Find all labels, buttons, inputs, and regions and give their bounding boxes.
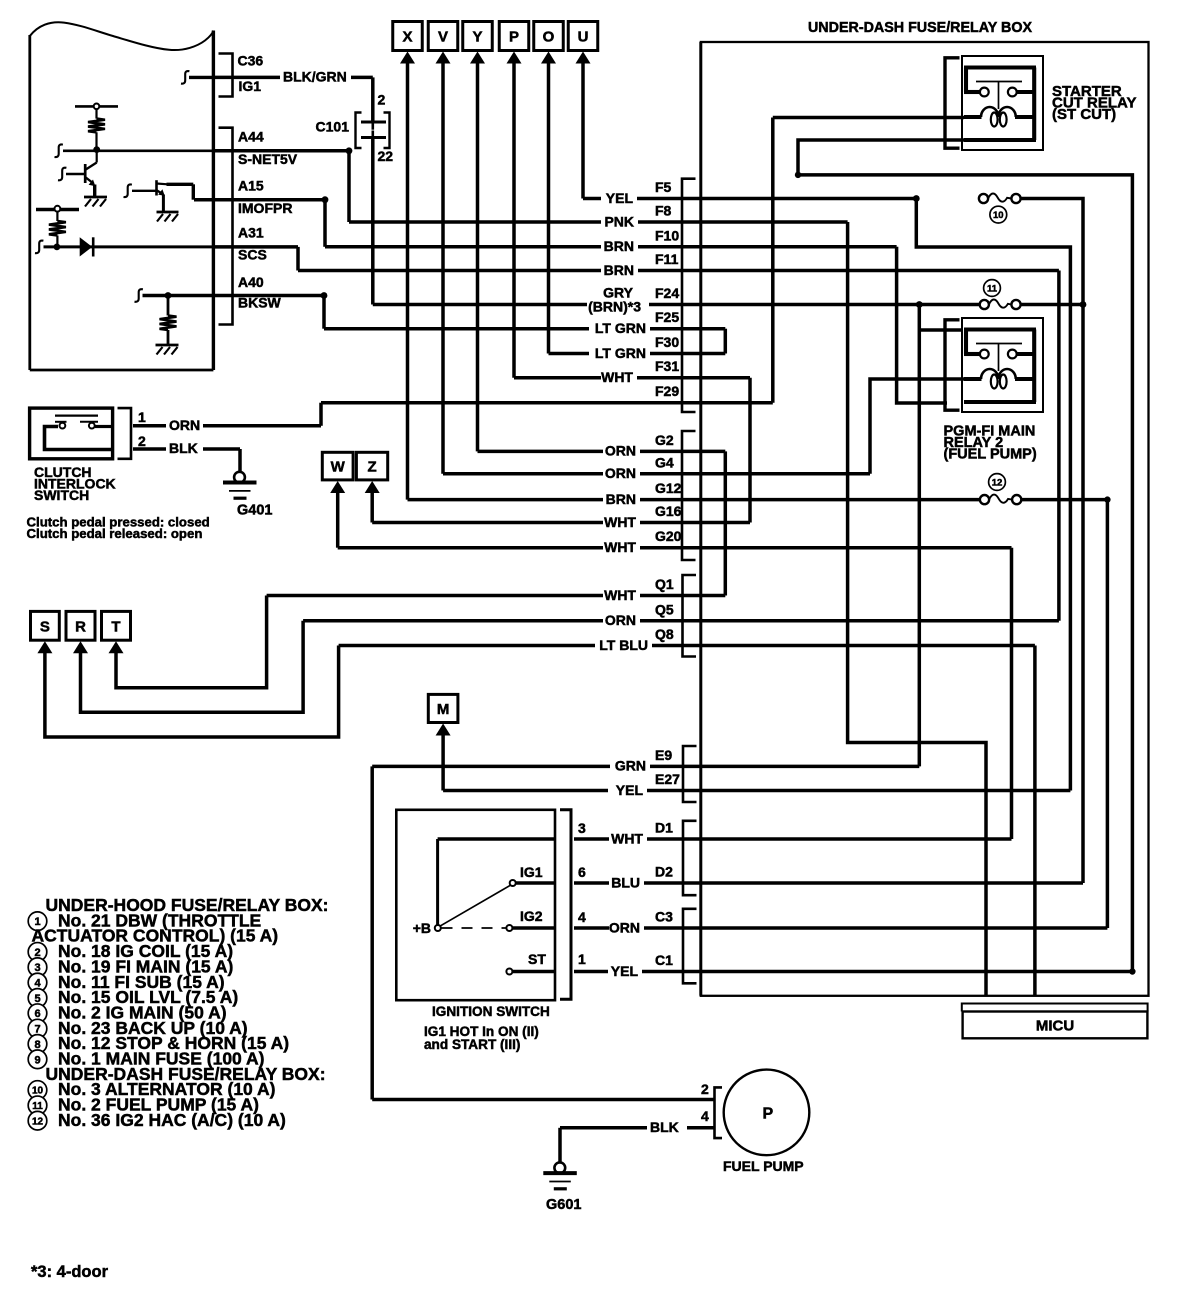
connector O: [534, 22, 564, 51]
corner node: [346, 147, 353, 154]
wire F31 to G16: [748, 378, 752, 523]
svg-text:ORN: ORN: [609, 919, 640, 935]
svg-text:P: P: [509, 29, 519, 46]
arrow to connector R: [73, 641, 88, 653]
svg-text:WHT: WHT: [604, 587, 636, 603]
wire SCS inside ECM: [44, 245, 214, 248]
wire ORN C3 (pin stub): [644, 926, 1107, 930]
svg-text:3: 3: [34, 962, 40, 974]
wire ORN: [203, 424, 321, 428]
svg-text:Q1: Q1: [655, 576, 674, 592]
wire down to G401: [238, 449, 242, 472]
wire T to Q1: [116, 596, 267, 688]
svg-text:F10: F10: [655, 227, 679, 243]
wire P to F31: [512, 61, 516, 378]
svg-text:11: 11: [987, 283, 998, 294]
svg-text:G20: G20: [655, 528, 682, 544]
wire PNK F8 (pin stub): [638, 220, 848, 224]
svg-text:GRN: GRN: [615, 758, 646, 774]
wire G20 to D1: [1010, 548, 1014, 839]
wire C101 to F24 row: [371, 138, 375, 305]
wire to Q1 collector: [96, 150, 98, 163]
IG1 stub curl: [181, 71, 189, 84]
junction F5/fuse10: [913, 195, 920, 202]
svg-text:Q8: Q8: [655, 626, 674, 642]
wire Y to G2: [476, 61, 480, 451]
wire WHT Q1 (pin stub): [640, 594, 725, 598]
wire IMOFPR: [194, 198, 325, 202]
wire WHT G16 (pin stub): [640, 521, 750, 525]
svg-text:2: 2: [34, 947, 40, 959]
arrow to connector M: [436, 724, 451, 736]
wire YEL F5 (pin stub): [637, 197, 916, 201]
wire pin1: [133, 424, 166, 428]
svg-text:P: P: [763, 1106, 774, 1123]
svg-text:C36: C36: [238, 53, 264, 69]
svg-text:4: 4: [34, 978, 41, 990]
wire fuse12 out to C3: [1021, 500, 1107, 928]
svg-text:BLU: BLU: [611, 874, 640, 890]
connector bracket E: [683, 746, 697, 802]
wire LT GRN F30: [549, 352, 590, 356]
connector P: [499, 22, 529, 51]
right contact lead: [80, 421, 98, 423]
wire fuse11 out: [1021, 303, 1083, 307]
svg-text:and START (III): and START (III): [424, 1037, 520, 1052]
svg-text:PNK: PNK: [604, 213, 634, 229]
wire WHT G20: [338, 546, 603, 550]
wire ORN Q5 (pin stub): [640, 619, 1059, 623]
svg-text:Y: Y: [472, 29, 482, 46]
svg-text:4: 4: [578, 909, 586, 925]
Q2 emitter drop: [162, 195, 165, 212]
diode cathode bar: [92, 237, 95, 256]
connector V: [428, 22, 458, 51]
svg-text:8: 8: [34, 1039, 40, 1051]
svg-text:22: 22: [378, 148, 394, 164]
svg-text:YEL: YEL: [616, 782, 644, 798]
connector W: [322, 452, 353, 480]
svg-text:F24: F24: [655, 285, 679, 301]
transistor Q1 emitter arm: [86, 178, 94, 184]
transistor Q1 base bar: [84, 164, 87, 183]
svg-text:(BRN)*3: (BRN)*3: [588, 299, 641, 315]
Q2 base curl: [124, 184, 132, 197]
wire: [351, 76, 373, 80]
plunger bar: [55, 415, 98, 417]
wire WHT F31 (pin stub): [637, 376, 750, 380]
connector X: [393, 22, 423, 51]
svg-text:11: 11: [32, 1101, 43, 1112]
svg-text:SCS: SCS: [238, 247, 267, 263]
arrow to connector U: [576, 52, 591, 64]
wire BRN F11: [298, 269, 601, 273]
connector bracket Q: [683, 575, 697, 657]
svg-text:9: 9: [34, 1054, 40, 1066]
supply rail 1: [75, 105, 118, 108]
ground (ECM internal) 4: [156, 345, 179, 355]
junction fuse11 out: [1080, 301, 1087, 308]
wire YEL F5: [583, 197, 601, 201]
svg-text:F30: F30: [655, 334, 679, 350]
svg-text:(ST CUT): (ST CUT): [1052, 106, 1116, 123]
svg-text:BLK: BLK: [169, 440, 198, 456]
switch lever to IG1: [441, 885, 511, 926]
right contact: [89, 423, 95, 429]
wire YEL C1: [574, 970, 608, 974]
clutch interlock switch: [30, 408, 113, 459]
ground (ECM internal) 1: [84, 197, 107, 207]
arrow to connector X: [400, 52, 415, 64]
svg-text:F25: F25: [655, 309, 679, 325]
svg-text:ORN: ORN: [605, 612, 636, 628]
svg-text:MICU: MICU: [1036, 1018, 1074, 1035]
wire WHT F31: [514, 376, 601, 380]
wire X to G12: [406, 61, 410, 500]
clutch switch connector bracket: [118, 408, 132, 459]
wire YEL E27 (pin stub): [647, 789, 1070, 793]
connector Z: [356, 452, 387, 480]
starter cut relay (ST CUT): [945, 56, 1043, 150]
svg-text:A44: A44: [238, 129, 264, 145]
svg-text:2: 2: [701, 1081, 709, 1097]
supply terminal circle 3: [55, 206, 61, 212]
svg-text:G16: G16: [655, 503, 682, 519]
wire: [95, 132, 97, 148]
transistor Q2 base bar: [155, 180, 158, 195]
svg-text:YEL: YEL: [611, 963, 639, 979]
Q2 collector wire: [167, 183, 194, 186]
svg-text:(FUEL PUMP): (FUEL PUMP): [944, 447, 1037, 463]
ground G601: [543, 1162, 581, 1213]
wire IG1 contact out: [516, 881, 555, 884]
wire BKSW: [215, 294, 324, 298]
connector bracket A (A44-A40): [219, 128, 233, 325]
node junction on S-NET5V line: [93, 146, 100, 153]
arrow to connector Y: [470, 52, 485, 64]
left contact lead: [55, 421, 67, 423]
corner node: [321, 292, 328, 299]
wire F8 to MICU: [848, 222, 986, 996]
wire: [167, 330, 170, 344]
connector U: [568, 22, 598, 51]
svg-text:IGNITION SWITCH: IGNITION SWITCH: [432, 1004, 550, 1019]
wire LT GRN F25 (pin stub): [650, 327, 701, 331]
wire SCS: [215, 245, 298, 249]
svg-text:A15: A15: [238, 178, 264, 194]
svg-text:ST: ST: [528, 951, 546, 967]
resistor R3: [49, 221, 66, 236]
transistor Q1 collector arm: [86, 163, 97, 170]
connector bracket G: [682, 431, 696, 560]
ECM box bottom edge: [30, 369, 214, 372]
svg-text:Q5: Q5: [655, 601, 674, 617]
fuse number 11: [984, 280, 1001, 297]
wire BKSW inside ECM: [143, 294, 214, 297]
wire F10 to relay2 bottom: [897, 247, 947, 403]
wire WHT D1 (pin stub): [647, 837, 1012, 841]
svg-text:F8: F8: [655, 203, 672, 219]
svg-text:WHT: WHT: [604, 514, 636, 530]
SCS stub curl: [35, 241, 43, 254]
ECM box left edge: [28, 35, 31, 370]
arrow to connector S: [37, 641, 52, 653]
wire R to Q5: [81, 621, 304, 712]
svg-text:12: 12: [992, 477, 1003, 488]
ignition switch: [396, 810, 555, 1000]
ECM box right edge: [212, 31, 215, 371]
wire BRN F10: [325, 245, 601, 249]
connector bracket C36: [219, 54, 233, 97]
corner node C1: [1129, 968, 1135, 974]
wire LT BLU Q8 (pin stub): [652, 644, 1035, 648]
wire PNK F8: [349, 220, 601, 224]
wire down to F25 row: [322, 296, 326, 329]
wire BLK: [203, 447, 240, 451]
connector R: [66, 611, 95, 640]
ECM box torn top edge: [30, 22, 214, 50]
wire WHT Q1: [267, 594, 603, 598]
junction F24/fuse11: [916, 301, 923, 308]
svg-text:FUEL PUMP: FUEL PUMP: [723, 1158, 804, 1174]
jumper F25-F30 vertical: [724, 329, 728, 354]
left contact: [60, 423, 66, 429]
svg-text:LT GRN: LT GRN: [595, 345, 646, 361]
IG1 contact: [510, 880, 516, 886]
PGM-FI main relay 2 (fuel pump): [945, 318, 1043, 412]
svg-text:*3: 4-door: *3: 4-door: [31, 1263, 109, 1281]
svg-text:5: 5: [34, 993, 40, 1005]
svg-text:E27: E27: [655, 771, 680, 787]
svg-text:F31: F31: [655, 358, 679, 374]
svg-text:IG1: IG1: [520, 864, 543, 880]
wire stub curl: [55, 144, 63, 157]
wire G2 to Q1: [724, 451, 728, 595]
wire IG2 contact out: [513, 926, 555, 929]
wire fuel pump pin 4 BLK: [560, 1126, 647, 1130]
+B contact: [435, 925, 441, 931]
svg-text:G4: G4: [655, 454, 674, 470]
svg-text:2: 2: [378, 92, 386, 108]
wire pin3 inside: [438, 837, 555, 840]
svg-text:A31: A31: [238, 225, 264, 241]
fuse 12 (No.36 IG2 HAC): [980, 495, 1021, 505]
ground G401: [223, 472, 272, 519]
svg-text:LT BLU: LT BLU: [599, 637, 648, 653]
arrow to connector T: [109, 641, 124, 653]
arrow to connector W: [330, 481, 345, 493]
arrow to connector V: [436, 52, 451, 64]
svg-text:D2: D2: [655, 864, 673, 880]
wire ORN G2 (pin stub): [640, 450, 725, 454]
wire IG1 inside ECM: [189, 76, 213, 79]
svg-text:G12: G12: [655, 480, 682, 496]
svg-text:6: 6: [578, 864, 586, 880]
svg-text:G2: G2: [655, 432, 674, 448]
wire O to F30: [547, 61, 551, 354]
svg-text:F11: F11: [655, 251, 679, 267]
IG2 contact: [506, 925, 512, 931]
wire ORN G2: [478, 450, 604, 454]
svg-text:YEL: YEL: [606, 190, 634, 206]
svg-text:X: X: [402, 29, 412, 46]
wire GRY F24 (pin stub): [649, 303, 980, 307]
wire F29: [321, 401, 773, 405]
fuse 11 (No.2 FUEL PUMP): [980, 299, 1021, 309]
resistor R1: [88, 119, 105, 133]
wire: [95, 109, 97, 118]
wire WHT G16: [372, 521, 603, 525]
wire fuse11 node down to E9: [918, 305, 922, 767]
svg-text:C3: C3: [655, 909, 673, 925]
wire to relay2 top: [919, 328, 962, 332]
svg-text:C1: C1: [655, 952, 673, 968]
svg-text:3: 3: [578, 820, 586, 836]
svg-text:F29: F29: [655, 383, 679, 399]
wire fuse10 out to D2: [1021, 199, 1083, 884]
wire S-NET5V inside ECM: [63, 150, 213, 153]
svg-text:LT GRN: LT GRN: [595, 320, 646, 336]
wire ORN G4: [443, 472, 603, 476]
svg-text:G401: G401: [237, 503, 272, 519]
junction fuse12 out: [1104, 496, 1110, 502]
contact to wall: [95, 425, 111, 428]
svg-text:WHT: WHT: [604, 539, 636, 555]
svg-text:W: W: [331, 459, 346, 476]
svg-text:UNDER-DASH FUSE/RELAY BOX: UNDER-DASH FUSE/RELAY BOX: [808, 20, 1032, 36]
wire M to E27: [441, 734, 445, 791]
svg-text:4: 4: [701, 1108, 709, 1124]
svg-text:G601: G601: [546, 1197, 581, 1213]
wire down to F11 row: [296, 247, 300, 271]
wire BRN F10 (pin stub): [638, 245, 897, 249]
svg-text:U: U: [578, 29, 589, 46]
supply terminal circle 1: [94, 104, 100, 110]
wire GRN E9 (pin stub): [650, 765, 919, 769]
wire LT GRN F30 (pin stub): [650, 352, 701, 356]
wire WHT D1: [574, 837, 609, 841]
wire V to G4: [441, 61, 445, 474]
wire G4 to relay2 coil: [870, 379, 964, 474]
wire down to C101: [371, 77, 375, 122]
fuse number 10: [990, 206, 1007, 223]
ST contact: [506, 969, 512, 975]
wire IG1 BLK/GRN: [215, 76, 280, 80]
ground (ECM internal) 2: [157, 212, 179, 222]
svg-text:E9: E9: [655, 747, 672, 763]
connector bracket D: [683, 821, 697, 895]
svg-text:1: 1: [578, 951, 586, 967]
wire S to Q8: [45, 646, 339, 738]
connector bracket F: [682, 179, 696, 412]
wire: [56, 236, 58, 246]
wire BLU D2: [574, 881, 609, 885]
wire Q8 to MICU: [1033, 646, 1037, 996]
wire up to F29 row: [319, 403, 323, 426]
wire BLU D2 (pin stub): [644, 881, 1083, 885]
wire S-NET5V: [215, 149, 349, 153]
arrow to connector O: [541, 52, 556, 64]
connector Y: [463, 22, 493, 51]
svg-text:ORN: ORN: [605, 443, 636, 459]
fuel pump connector bracket: [715, 1087, 723, 1138]
wire ORN Q5: [303, 619, 603, 623]
arrow to connector Z: [365, 481, 380, 493]
wire W to G20: [336, 491, 340, 548]
svg-text:ORN: ORN: [605, 465, 636, 481]
Q2 base lead: [132, 190, 156, 192]
wire to fuel pump pin 2: [372, 1098, 714, 1102]
wire pin2: [133, 447, 166, 451]
Q1 base lead: [66, 173, 84, 175]
svg-text:C101: C101: [316, 119, 350, 135]
wire down to F10 row: [323, 200, 327, 247]
svg-text:6: 6: [34, 1008, 40, 1020]
svg-text:IMOFPR: IMOFPR: [238, 200, 292, 216]
svg-text:IG2: IG2: [520, 908, 543, 924]
svg-text:F5: F5: [655, 179, 672, 195]
wire BRN G12 (pin stub): [640, 498, 980, 502]
wire starter relay bottom to C1: [798, 140, 1132, 972]
connector T: [102, 611, 131, 640]
corner node: [795, 172, 801, 178]
fuse number 12: [989, 474, 1006, 491]
svg-text:S: S: [40, 618, 50, 635]
wire down to G601: [558, 1128, 562, 1163]
wire GRN E9: [372, 765, 610, 769]
svg-text:+B: +B: [413, 920, 431, 936]
corner node: [322, 196, 329, 203]
Q2 emitter arm: [157, 191, 163, 195]
wire: [167, 296, 170, 316]
svg-text:V: V: [438, 29, 448, 46]
svg-text:No. 36 IG2 HAC (A/C) (10 A): No. 36 IG2 HAC (A/C) (10 A): [58, 1110, 286, 1130]
wire down to F8 row: [347, 151, 351, 222]
connector C101: [356, 113, 362, 149]
svg-text:10: 10: [993, 210, 1004, 221]
wire F29 to relay coil: [771, 118, 775, 403]
wire YEL C1 (pin stub): [642, 970, 1132, 974]
svg-text:1: 1: [138, 409, 146, 425]
wire fuse10 node to E27: [916, 199, 1070, 791]
fuel pump P: [724, 1070, 810, 1156]
connector M: [428, 694, 458, 722]
svg-text:BRN: BRN: [604, 238, 634, 254]
svg-text:D1: D1: [655, 820, 673, 836]
wire to +B: [436, 839, 439, 925]
wire to starter cut relay coil: [773, 116, 964, 120]
wire: [56, 212, 58, 221]
bridge bar: [45, 427, 112, 450]
wire BRN F11 (pin stub): [638, 269, 1059, 273]
svg-text:SWITCH: SWITCH: [34, 487, 89, 503]
svg-text:7: 7: [34, 1024, 40, 1036]
svg-text:BLK: BLK: [650, 1119, 679, 1135]
svg-text:S-NET5V: S-NET5V: [238, 151, 298, 167]
svg-text:Clutch pedal released: open: Clutch pedal released: open: [27, 526, 203, 541]
wire Z to G16: [370, 491, 374, 523]
svg-text:IG1: IG1: [239, 78, 262, 94]
box left edge emphasis: [699, 42, 702, 996]
ignition switch connector bracket: [560, 810, 571, 1000]
Q2 collector arm: [157, 182, 168, 185]
svg-text:12: 12: [32, 1116, 44, 1127]
MICU box: [962, 1004, 1148, 1012]
wire: [687, 1126, 715, 1130]
node junction on BKSW line: [165, 292, 172, 299]
wire LT GRN F25: [324, 327, 589, 331]
connector S: [31, 611, 60, 640]
